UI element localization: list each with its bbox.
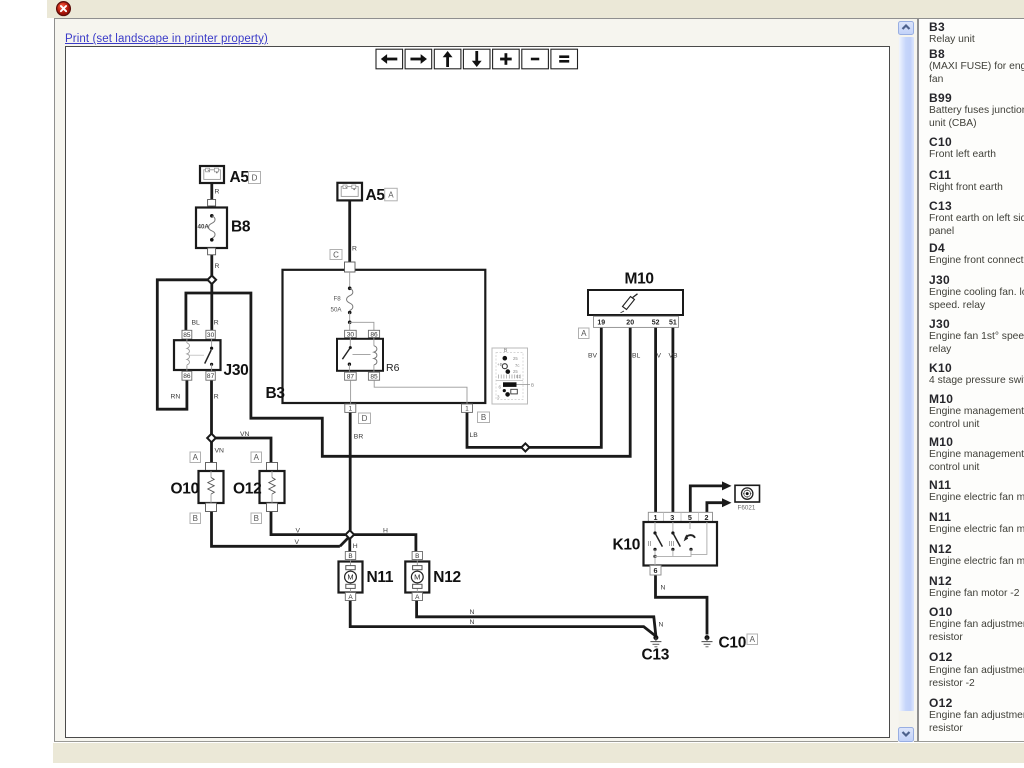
svg-text:A: A xyxy=(254,453,260,462)
svg-text:A: A xyxy=(581,329,587,338)
svg-text:N12: N12 xyxy=(433,569,461,586)
svg-text:3: 3 xyxy=(670,513,674,522)
svg-text:B3: B3 xyxy=(266,385,286,402)
svg-text:7c: 7c xyxy=(515,363,519,368)
svg-text:C13: C13 xyxy=(642,647,670,664)
svg-text:VN: VN xyxy=(240,431,250,438)
svg-text:51: 51 xyxy=(669,320,677,327)
svg-text:A: A xyxy=(388,190,394,199)
svg-text:6: 6 xyxy=(654,566,658,575)
svg-text:VB: VB xyxy=(669,353,679,360)
svg-text:C10: C10 xyxy=(719,635,747,652)
svg-text:52: 52 xyxy=(652,320,660,327)
svg-text:A: A xyxy=(750,635,756,644)
svg-text:B: B xyxy=(254,514,259,523)
svg-text:N11: N11 xyxy=(367,569,394,586)
svg-text:86: 86 xyxy=(370,331,378,338)
svg-text:B: B xyxy=(481,413,486,422)
svg-text:K10: K10 xyxy=(613,537,641,554)
svg-text:RN: RN xyxy=(171,394,181,401)
svg-text:40A: 40A xyxy=(198,223,210,230)
svg-text:87: 87 xyxy=(347,374,355,381)
svg-text:N: N xyxy=(470,609,475,616)
svg-text:30: 30 xyxy=(347,331,355,338)
svg-text:20: 20 xyxy=(626,320,634,327)
svg-text:85: 85 xyxy=(183,332,191,339)
svg-text:A: A xyxy=(193,453,199,462)
svg-text:87: 87 xyxy=(207,373,215,380)
svg-text:VN: VN xyxy=(215,448,225,455)
svg-text:R: R xyxy=(352,246,357,253)
svg-text:N: N xyxy=(659,622,664,629)
svg-text:II: II xyxy=(648,541,652,548)
svg-text:D: D xyxy=(362,414,368,423)
svg-text:B: B xyxy=(531,383,534,388)
svg-text:19: 19 xyxy=(597,320,605,327)
svg-text:F6021: F6021 xyxy=(738,505,756,512)
svg-text:N: N xyxy=(661,585,666,592)
svg-text:R: R xyxy=(214,394,219,401)
svg-text:V: V xyxy=(295,539,300,546)
svg-text:30: 30 xyxy=(207,332,215,339)
svg-text:H: H xyxy=(383,527,388,534)
svg-text:R6: R6 xyxy=(386,362,400,374)
svg-text:V: V xyxy=(296,527,301,534)
svg-text:5: 5 xyxy=(688,513,692,522)
svg-text:O10: O10 xyxy=(171,481,199,498)
svg-text:BV: BV xyxy=(588,353,598,360)
svg-text:F8: F8 xyxy=(334,296,342,303)
svg-text:M10: M10 xyxy=(625,271,654,288)
svg-text:M: M xyxy=(347,573,353,582)
svg-text:B8: B8 xyxy=(231,219,251,236)
svg-text:LB: LB xyxy=(470,432,479,439)
svg-text:81: 81 xyxy=(516,374,521,379)
svg-text:J30: J30 xyxy=(224,362,249,379)
svg-text:B: B xyxy=(193,514,198,523)
svg-text:B: B xyxy=(415,553,419,560)
svg-text:1: 1 xyxy=(349,405,353,412)
svg-text:III: III xyxy=(669,541,675,548)
svg-text:86: 86 xyxy=(183,373,191,380)
svg-text:85: 85 xyxy=(370,374,378,381)
svg-text:1: 1 xyxy=(465,405,469,412)
svg-text:50A: 50A xyxy=(331,307,343,314)
svg-text:+B: +B xyxy=(497,362,503,367)
svg-text:D: D xyxy=(252,173,258,182)
svg-text:25: 25 xyxy=(513,356,518,361)
svg-text:H: H xyxy=(353,543,358,550)
svg-text:O12: O12 xyxy=(233,481,261,498)
svg-text:B: B xyxy=(348,553,352,560)
svg-text:BL: BL xyxy=(192,320,201,327)
svg-text:2: 2 xyxy=(705,513,709,522)
svg-text:A: A xyxy=(348,594,353,601)
svg-text:A: A xyxy=(415,594,420,601)
svg-text:R: R xyxy=(215,189,220,196)
svg-text:C: C xyxy=(333,250,339,259)
svg-text:M: M xyxy=(414,573,420,582)
svg-text:N: N xyxy=(470,619,475,626)
svg-text:V: V xyxy=(657,353,662,360)
svg-text:1: 1 xyxy=(654,513,658,522)
svg-text:BR: BR xyxy=(354,434,364,441)
svg-text:A5: A5 xyxy=(366,187,386,204)
svg-text:A5: A5 xyxy=(230,169,250,186)
svg-text:R: R xyxy=(215,263,220,270)
svg-text:R: R xyxy=(214,320,219,327)
svg-text:BL: BL xyxy=(632,353,641,360)
